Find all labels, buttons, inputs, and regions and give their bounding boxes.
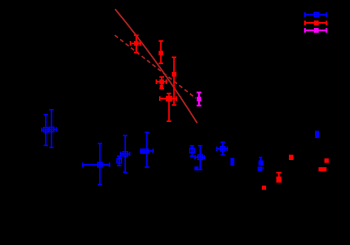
- blue point N: [121, 136, 130, 173]
- red point P: [289, 155, 294, 160]
- blue point V: [83, 144, 110, 185]
- magenta point: [197, 93, 202, 106]
- red point D: [156, 77, 166, 89]
- red point R: [262, 186, 266, 190]
- red point A: [131, 35, 141, 52]
- red point C: [172, 57, 177, 105]
- solid fit line: [115, 9, 197, 123]
- blue point U1: [42, 115, 50, 146]
- blue point M: [117, 156, 121, 165]
- red point Q: [276, 173, 281, 183]
- dashed fit line: [115, 35, 196, 98]
- red point B: [159, 41, 164, 63]
- legend entry magenta: [305, 28, 327, 33]
- blue point G: [195, 146, 204, 170]
- blue point H: [194, 166, 198, 170]
- legend entry blue: [305, 12, 327, 17]
- blue point F: [190, 146, 194, 156]
- blue point I: [217, 142, 227, 155]
- red point O: [319, 167, 327, 171]
- blue point L: [315, 131, 319, 138]
- blue cluster W: [140, 132, 153, 167]
- blue cluster K: [258, 157, 264, 171]
- blue point U2: [47, 110, 57, 148]
- red point E: [160, 94, 177, 122]
- blue point J: [230, 158, 234, 166]
- legend entry red: [305, 21, 327, 26]
- red point N2: [324, 158, 328, 162]
